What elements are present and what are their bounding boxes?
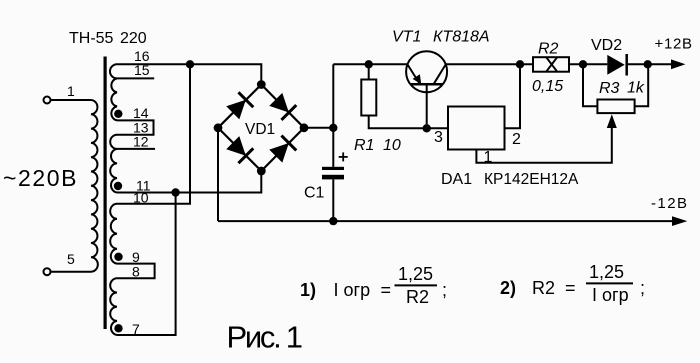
wire DA1 pin 1 to R3 wiper bbox=[476, 127, 611, 163]
junction dot on wire 16 bbox=[186, 60, 194, 68]
secondary winding B (pins 13-12-11) bbox=[110, 135, 117, 193]
wire R1 bottom to DA1 input line bbox=[369, 116, 448, 129]
node VT1 base junction bbox=[423, 124, 431, 132]
wire DA1 pin 2 up to rail bbox=[505, 64, 521, 128]
svg-text:=: = bbox=[565, 278, 576, 298]
wire filter node up to positive rail bbox=[332, 64, 334, 128]
svg-text:10: 10 bbox=[133, 190, 149, 206]
transformer core bbox=[104, 57, 107, 330]
resistor R1 bbox=[361, 80, 376, 116]
svg-text:Рис. 1: Рис. 1 bbox=[227, 320, 304, 355]
wire pin 10 to pin 16 (vertical x=190) bbox=[117, 64, 190, 204]
secondary winding C (pins 10-9) bbox=[110, 204, 117, 264]
svg-text:=: = bbox=[381, 280, 392, 300]
transformer T1 label ТН-55 220 bbox=[69, 30, 147, 47]
terminal 5 circle bbox=[44, 268, 51, 275]
secondary winding A (pins 16-15-14) bbox=[110, 64, 117, 120]
winding dot pin 11 bbox=[114, 182, 122, 190]
svg-text:VT1: VT1 bbox=[392, 29, 421, 46]
arrow +12V output bbox=[671, 59, 685, 69]
winding dot pin 9 bbox=[114, 253, 122, 261]
wire R3 right up to output node bbox=[635, 64, 649, 106]
svg-text:1k: 1k bbox=[627, 80, 645, 97]
svg-text:R2: R2 bbox=[406, 287, 429, 307]
node filter junction bbox=[329, 124, 337, 132]
transistor VT1 bbox=[406, 51, 447, 92]
svg-text:+12В: +12В bbox=[655, 36, 693, 53]
label R1 10 bbox=[354, 137, 401, 154]
node R1 top bbox=[365, 60, 373, 68]
wire pin 16 to bridge top vertex bbox=[117, 64, 261, 84]
svg-text:R1: R1 bbox=[354, 137, 374, 154]
wire filter node down to C1 bbox=[332, 128, 334, 167]
bracket joining pins 9 and 8 bbox=[117, 264, 155, 279]
svg-text:DA1: DA1 bbox=[441, 171, 472, 188]
node bridge right vertex bbox=[300, 123, 309, 132]
svg-text:0,15: 0,15 bbox=[532, 78, 563, 95]
svg-text:12: 12 bbox=[133, 134, 149, 150]
wire terminal 1 to primary bbox=[50, 99, 91, 101]
node bridge bottom vertex bbox=[257, 167, 266, 176]
svg-text:R3: R3 bbox=[599, 80, 620, 97]
svg-text:I огр: I огр bbox=[334, 280, 371, 300]
formula 1 bbox=[300, 262, 645, 307]
svg-text:КТ818А: КТ818А bbox=[433, 29, 490, 46]
winding dot pin 14 bbox=[114, 110, 122, 118]
svg-text:C1: C1 bbox=[304, 185, 325, 202]
wire primary to terminal 5 bbox=[50, 271, 91, 273]
label C1 plus bbox=[339, 152, 348, 161]
positive rail right of VT1 bbox=[446, 63, 533, 65]
svg-text:I огр: I огр bbox=[592, 285, 629, 305]
svg-text:1: 1 bbox=[67, 83, 75, 99]
VT1 base bar bbox=[411, 83, 444, 86]
wire R1 top bbox=[368, 64, 370, 79]
svg-text:1): 1) bbox=[300, 280, 316, 300]
svg-text:~220В: ~220В bbox=[3, 165, 77, 191]
node pin2 on rail bbox=[516, 60, 524, 68]
node R2/VD2/R3 junction bbox=[579, 60, 587, 68]
winding dot pin 7 bbox=[114, 324, 122, 332]
node bridge left vertex bbox=[214, 123, 223, 132]
svg-text:R2: R2 bbox=[538, 41, 559, 58]
wire bridge left vertex down to negative rail bbox=[217, 128, 219, 221]
svg-text:КР142ЕН12А: КР142ЕН12А bbox=[484, 171, 579, 188]
terminal 1 circle bbox=[44, 97, 51, 104]
wire bridge right vertex to filter node bbox=[304, 127, 333, 129]
svg-text:;: ; bbox=[640, 278, 645, 298]
wire pin 7 up to pin 11 junction bbox=[117, 193, 176, 336]
wire pin 15 stub bbox=[117, 77, 154, 79]
VT1 collector bbox=[434, 65, 446, 85]
capacitor C1 bbox=[322, 167, 344, 170]
diode VD1.2 upper-right bbox=[268, 92, 296, 120]
positive rail left of VT1 bbox=[333, 63, 407, 65]
wire R2 right bbox=[569, 63, 607, 65]
arrow -12V output bbox=[672, 216, 687, 226]
diode VD1.3 lower-left bbox=[225, 135, 253, 163]
bracket joining pins 14 and 13 bbox=[117, 120, 154, 134]
wire VD2 cathode to output bbox=[627, 63, 672, 65]
diode VD1.1 upper-left bbox=[225, 92, 253, 120]
regulator DA1 box bbox=[448, 107, 505, 150]
wire pin 12 stub bbox=[117, 148, 155, 150]
negative bottom rail bbox=[218, 220, 672, 222]
wire C1 to negative rail bbox=[332, 179, 334, 221]
svg-text:1,25: 1,25 bbox=[589, 262, 624, 282]
resistor R2 (fusible) bbox=[533, 57, 569, 71]
svg-text:2): 2) bbox=[500, 278, 516, 298]
svg-text:R2: R2 bbox=[532, 278, 555, 298]
wire R2 junction down to R3 bbox=[583, 64, 597, 106]
wire pin 11 to bridge bottom vertex bbox=[117, 171, 261, 193]
secondary winding D (pins 8-7) bbox=[110, 278, 117, 335]
node C1 on negative rail bbox=[329, 217, 337, 225]
diode VD1.4 lower-right bbox=[268, 136, 296, 164]
node VD2 output junction bbox=[644, 60, 652, 68]
VT1 emitter bbox=[408, 65, 420, 84]
diode VD2 bbox=[607, 55, 624, 75]
R3 wiper arrow bbox=[607, 114, 617, 128]
svg-text:5: 5 bbox=[67, 251, 75, 267]
svg-text:ТН-55: ТН-55 bbox=[69, 30, 114, 47]
svg-text:1,25: 1,25 bbox=[398, 264, 433, 284]
potentiometer R3 bbox=[597, 100, 634, 114]
svg-text:;: ; bbox=[442, 280, 447, 300]
junction dot pin7/pin11 tie bbox=[171, 188, 179, 196]
bridge rectifier VD1 diamond bbox=[218, 85, 304, 172]
svg-text:8: 8 bbox=[132, 264, 140, 280]
svg-text:2: 2 bbox=[512, 131, 521, 148]
svg-text:10: 10 bbox=[383, 137, 401, 154]
node bridge top vertex bbox=[257, 80, 266, 89]
svg-text:VD2: VD2 bbox=[591, 37, 622, 54]
VT1 base wire bbox=[426, 84, 428, 128]
svg-text:3: 3 bbox=[434, 129, 443, 146]
svg-text:VD1: VD1 bbox=[245, 121, 275, 138]
svg-text:220: 220 bbox=[120, 30, 147, 47]
transformer primary winding bbox=[91, 100, 98, 272]
